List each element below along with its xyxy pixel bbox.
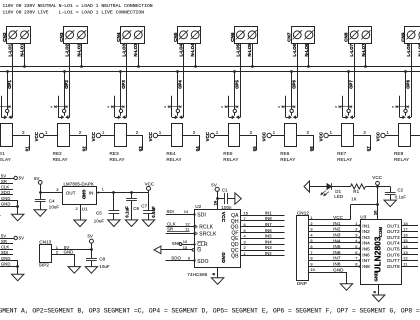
svg-text:N-LO3: N-LO3 <box>133 43 138 57</box>
U1 GND pin 2 <box>76 204 89 220</box>
relay coil RE7 <box>342 124 354 147</box>
svg-text:OUT8: OUT8 <box>387 264 400 269</box>
svg-text:03: 03 <box>138 146 143 151</box>
svg-text:C4: C4 <box>49 199 55 204</box>
svg-text:74HC595: 74HC595 <box>187 272 207 277</box>
svg-text:VCC: VCC <box>145 181 155 186</box>
svg-text:CN13: CN13 <box>39 240 51 245</box>
U3 IN1/OUT1 row <box>362 221 418 229</box>
svg-text:9: 9 <box>188 256 190 261</box>
svg-text:1: 1 <box>244 251 246 256</box>
terminal block CN9 <box>401 27 420 44</box>
IC U3 ULN2803 <box>360 215 401 285</box>
U2 output QG pin 6 net IN7 <box>231 222 285 231</box>
svg-text:ULN2803: ULN2803 <box>373 236 383 272</box>
wire N-LO5 to neutral bus <box>252 43 254 67</box>
U3 IN8/OUT8 row <box>362 261 418 269</box>
svg-text:GND: GND <box>373 272 378 282</box>
capacitor C8 <box>86 250 110 269</box>
svg-text:SDI: SDI <box>197 212 206 218</box>
svg-text:2: 2 <box>355 227 357 232</box>
connector CN12 <box>297 211 310 286</box>
svg-text:RE4: RE4 <box>166 151 176 156</box>
svg-text:01: 01 <box>24 146 29 151</box>
svg-text:3: 3 <box>310 227 312 232</box>
net CLK to pin 12 <box>166 221 196 227</box>
svg-text:7: 7 <box>244 216 246 221</box>
relay contact RE5 <box>221 96 240 119</box>
junction <box>376 185 379 188</box>
junction live bus <box>404 70 407 73</box>
svg-text:N-LO4: N-LO4 <box>190 43 195 57</box>
VCC pin <box>145 181 155 192</box>
svg-text:CN6: CN6 <box>230 32 235 42</box>
wire N-LO6 to neutral bus <box>308 43 310 67</box>
svg-text:OUT4: OUT4 <box>387 241 400 246</box>
svg-text:IN3: IN3 <box>265 245 272 250</box>
svg-text:L-LO2: L-LO2 <box>65 43 70 56</box>
5V pin for U2 <box>211 182 219 209</box>
svg-text:IN7: IN7 <box>265 222 272 227</box>
svg-text:VCC: VCC <box>91 132 96 141</box>
svg-text:IN7: IN7 <box>362 258 370 263</box>
svg-text:5: 5 <box>392 105 394 109</box>
svg-text:R1: R1 <box>353 189 359 194</box>
svg-text:SDO: SDO <box>1 190 10 195</box>
wire N-LO4 to neutral bus <box>195 43 197 67</box>
svg-text:OUT5: OUT5 <box>387 247 400 252</box>
svg-text:5: 5 <box>278 105 280 109</box>
svg-text:10: 10 <box>310 267 315 272</box>
svg-text:10uF: 10uF <box>49 205 60 210</box>
wire U1 IN to VCC rail <box>97 192 149 194</box>
net stubs GND <box>0 196 19 214</box>
svg-text:LM7805-DAPK: LM7805-DAPK <box>64 182 94 187</box>
svg-text:110V OR 230V LIVE: 110V OR 230V LIVE <box>3 10 49 16</box>
wire N-LO3 to neutral bus <box>138 43 140 67</box>
U2 output QA pin 15 net IN1 <box>231 210 284 219</box>
svg-text:13: 13 <box>403 250 408 255</box>
relay coil RE3 <box>115 124 127 147</box>
svg-text:VCC: VCC <box>319 132 324 141</box>
capacitor C6 0.1uF <box>125 193 140 220</box>
svg-text:RE1: RE1 <box>0 151 5 156</box>
svg-text:2: 2 <box>307 130 310 135</box>
wire VCC to U3 COM <box>351 187 379 220</box>
wire live bus to contact pole <box>64 72 66 109</box>
relay contact RE7 <box>335 96 354 119</box>
svg-text:7: 7 <box>355 256 357 261</box>
wire L-LO5 to relay contact <box>240 43 242 117</box>
svg-text:8: 8 <box>355 261 357 266</box>
svg-text:GND: GND <box>333 267 344 272</box>
relay contact RE2 <box>51 96 70 119</box>
net stub SDI <box>0 250 13 255</box>
wire live bus to contact pole <box>177 72 179 109</box>
CN12 pin 5 net IN4 <box>308 238 360 243</box>
svg-text:T: T <box>0 214 1 219</box>
svg-text:12: 12 <box>403 256 408 261</box>
U3 IN5/OUT5 row <box>362 244 418 252</box>
relay coil RE8 <box>399 124 411 147</box>
svg-text:RELAY: RELAY <box>223 157 238 162</box>
svg-text:VCC: VCC <box>34 132 39 141</box>
svg-text:IN2: IN2 <box>362 229 370 234</box>
svg-text:OP7: OP7 <box>348 80 353 89</box>
terminal block CN3 <box>59 27 87 44</box>
ground <box>68 267 80 274</box>
svg-text:RELAY: RELAY <box>0 157 11 162</box>
svg-text:IN6: IN6 <box>333 250 341 255</box>
svg-text:1: 1 <box>45 130 48 135</box>
svg-text:14: 14 <box>184 209 189 214</box>
wire N-LO2 to neutral bus <box>81 43 83 67</box>
svg-text:IN4: IN4 <box>362 241 370 246</box>
svg-text:IN6: IN6 <box>362 252 370 257</box>
wire live bus to contact pole <box>7 72 9 109</box>
CN12 pin 2 net IN1 <box>308 221 360 227</box>
CN12 pin 9 net IN8 <box>308 261 360 267</box>
svg-text:N-LO2: N-LO2 <box>76 43 81 57</box>
wire live bus to contact pole <box>234 72 236 109</box>
svg-text:RELAY: RELAY <box>110 157 125 162</box>
relay coil RE2 <box>58 124 70 147</box>
svg-text:L-LO1: L-LO1 <box>8 43 13 56</box>
junction <box>130 191 133 194</box>
svg-text:10uF: 10uF <box>99 264 110 269</box>
relay coil RE5 <box>229 124 240 147</box>
terminal block CN5 <box>173 27 201 44</box>
svg-text:2: 2 <box>193 130 196 135</box>
svg-text:04: 04 <box>195 146 200 151</box>
svg-text:5: 5 <box>355 244 357 249</box>
svg-text:VCC: VCC <box>376 132 381 141</box>
svg-text:OUT2: OUT2 <box>387 229 400 234</box>
net stub SR <box>0 239 13 244</box>
CN12 pin 1 net VCC <box>308 215 350 220</box>
junction neutral bus <box>80 65 83 68</box>
svg-text:C7: C7 <box>141 203 147 208</box>
svg-text:OP4: OP4 <box>178 80 183 89</box>
svg-text:CN5: CN5 <box>173 32 178 42</box>
svg-text:2: 2 <box>250 130 253 135</box>
ground <box>373 295 385 302</box>
net SR to pin 11 <box>166 227 196 235</box>
wire L-LO3 to relay contact <box>126 43 128 117</box>
svg-text:IN8: IN8 <box>362 264 370 269</box>
svg-text:1: 1 <box>159 130 162 135</box>
svg-text:GND: GND <box>81 190 86 200</box>
VCC pin <box>0 132 1 141</box>
svg-text:CN7: CN7 <box>287 32 292 42</box>
svg-text:OP5: OP5 <box>235 80 240 89</box>
wire L-LO6 to relay contact <box>297 43 299 117</box>
ground <box>85 267 97 274</box>
svg-text:SDI: SDI <box>167 209 174 214</box>
IC U2 74HC595 <box>195 204 241 268</box>
svg-text:IN1: IN1 <box>362 223 370 228</box>
ground <box>125 220 137 227</box>
junction live bus <box>290 70 293 73</box>
svg-text:U2: U2 <box>195 204 201 209</box>
bus stub group 2: 5V <box>0 233 24 240</box>
svg-text:6: 6 <box>310 244 312 249</box>
net stub SDO <box>0 190 13 195</box>
wire live bus to contact pole <box>348 72 350 109</box>
wire coil to net O2 <box>70 136 87 151</box>
terminal block CN8 <box>344 27 372 44</box>
net stubs GND <box>0 256 19 274</box>
wire L-LO4 to relay contact <box>183 43 185 117</box>
wire N-LO7 to neutral bus <box>365 43 367 67</box>
svg-text:C1: C1 <box>222 188 228 193</box>
svg-text:2: 2 <box>79 130 82 135</box>
svg-text:RE3: RE3 <box>110 151 120 156</box>
svg-text:C5: C5 <box>96 211 102 216</box>
net SDO from pin 9 <box>166 256 196 262</box>
U3 IN6/OUT6 row <box>362 250 418 257</box>
svg-text:IN7: IN7 <box>333 256 341 261</box>
svg-text:RE2: RE2 <box>53 151 63 156</box>
svg-text:IN4: IN4 <box>333 238 341 243</box>
terminal block CN6 <box>230 27 258 44</box>
svg-text:VCC: VCC <box>333 215 344 220</box>
wire L-LO1 to relay contact <box>12 43 14 117</box>
wire live bus to contact pole <box>405 72 407 109</box>
wire live bus to contact pole <box>291 72 293 109</box>
svg-text:G: G <box>197 248 201 254</box>
net stub CLK <box>0 245 13 250</box>
svg-text:5V: 5V <box>211 182 217 187</box>
resistor R1 1K <box>351 184 366 201</box>
net stub CLK <box>0 185 13 190</box>
U2 output QC pin 2 net IN3 <box>231 245 285 254</box>
VCC pin <box>91 132 114 141</box>
svg-text:L-LO4: L-LO4 <box>178 43 183 56</box>
U2 output QD pin 3 net IN4 <box>231 239 285 248</box>
svg-text:RE7: RE7 <box>337 151 347 156</box>
svg-text:15: 15 <box>244 210 249 215</box>
U3 GND pin 9 <box>372 284 379 295</box>
svg-text:QB: QB <box>231 254 239 260</box>
svg-text:06: 06 <box>309 146 314 151</box>
svg-text:RELAY: RELAY <box>337 157 352 162</box>
svg-text:7: 7 <box>310 250 312 255</box>
svg-text:5: 5 <box>335 105 337 109</box>
junction neutral bus <box>364 65 367 68</box>
wire L-LO8 to relay contact <box>411 43 413 117</box>
svg-text:8: 8 <box>310 256 312 261</box>
wire live bus to contact pole <box>120 72 122 109</box>
wire coil to net O4 <box>183 136 200 151</box>
VCC pin <box>376 132 399 141</box>
svg-text:OUT1: OUT1 <box>387 223 400 228</box>
svg-text:0.1uF: 0.1uF <box>151 206 156 218</box>
U2 output QB pin 1 net IN2 <box>231 251 284 260</box>
junction live bus <box>6 70 9 73</box>
svg-text:C8: C8 <box>99 257 105 262</box>
svg-text:CN12: CN12 <box>297 211 309 216</box>
ground <box>108 220 120 227</box>
svg-text:2: 2 <box>136 130 139 135</box>
svg-text:L-LO1 = LOAD 1 LIVE CONNECTION: L-LO1 = LOAD 1 LIVE CONNECTION <box>59 10 145 16</box>
svg-text:18: 18 <box>403 221 408 226</box>
junction <box>112 191 115 194</box>
CN13 pin 2 wire GND <box>52 249 75 266</box>
svg-text:C2: C2 <box>397 188 403 193</box>
ground <box>74 220 86 227</box>
svg-text:RE5: RE5 <box>223 151 233 156</box>
svg-text:5: 5 <box>164 105 166 109</box>
junction live bus <box>63 70 66 73</box>
svg-text:1: 1 <box>102 130 105 135</box>
capacitor C5 <box>94 193 120 224</box>
svg-text:GND: GND <box>1 201 10 206</box>
svg-text:11: 11 <box>403 261 407 266</box>
5V supply pin <box>34 176 42 193</box>
svg-text:GND: GND <box>221 252 226 263</box>
svg-text:IN1: IN1 <box>333 221 341 226</box>
U2 pin names <box>195 212 226 265</box>
svg-text:GND: GND <box>64 250 74 255</box>
U3 IN7/OUT7 row <box>362 256 418 264</box>
svg-text:17: 17 <box>403 227 408 232</box>
U3 IN3/OUT3 row <box>362 232 418 240</box>
svg-text:2: 2 <box>22 130 25 135</box>
svg-text:IN2: IN2 <box>333 227 341 232</box>
ground <box>34 210 46 217</box>
CN12 pin 8 net IN7 <box>308 256 360 262</box>
wire R1 to VCC node <box>366 186 391 188</box>
relay contact RE4 <box>164 96 183 119</box>
junction live bus <box>176 70 179 73</box>
svg-text:SR: SR <box>1 179 7 184</box>
relay contact RE3 <box>108 96 127 119</box>
ground <box>384 200 396 207</box>
svg-text:OUT7: OUT7 <box>387 258 400 263</box>
wire LED to R1 <box>332 186 351 188</box>
svg-text:RE8: RE8 <box>394 151 404 156</box>
svg-text:VCC: VCC <box>221 212 226 223</box>
U2 output QE pin 4 net IN5 <box>231 234 284 243</box>
U3 IN2/OUT2 row <box>362 227 418 235</box>
svg-text:2: 2 <box>310 221 312 226</box>
svg-text:RELAY: RELAY <box>394 157 409 162</box>
relay coil RE1 <box>1 124 13 147</box>
svg-text:6: 6 <box>355 250 357 255</box>
wire N-LO1 to neutral bus <box>24 43 26 67</box>
svg-text:CN2: CN2 <box>2 32 7 42</box>
svg-text:L-LO5: L-LO5 <box>235 43 240 56</box>
svg-text:OP1: OP1 <box>7 80 12 89</box>
svg-text:2: 2 <box>363 130 366 135</box>
svg-text:IN8: IN8 <box>333 262 341 267</box>
port arrow left <box>304 181 310 192</box>
terminal block CN4 <box>116 27 145 44</box>
svg-text:N-LO5: N-LO5 <box>247 43 252 57</box>
U3 IN4/OUT4 row <box>362 238 418 246</box>
svg-text:1: 1 <box>310 215 312 220</box>
svg-text:11: 11 <box>185 227 189 232</box>
connector CN13 <box>39 240 52 268</box>
svg-text:10: 10 <box>183 239 188 244</box>
svg-text:IN3: IN3 <box>333 233 341 238</box>
CN13 pin 1 wire 5V <box>52 245 92 250</box>
svg-text:1: 1 <box>330 130 333 135</box>
svg-text:DNP: DNP <box>297 281 307 286</box>
svg-text:5: 5 <box>221 105 223 109</box>
svg-text:07: 07 <box>366 146 371 151</box>
svg-text:0.1uF: 0.1uF <box>395 195 407 200</box>
svg-text:GND: GND <box>1 196 10 201</box>
U2 GND pin 8 <box>211 267 218 277</box>
relay coil RE6 <box>285 124 297 147</box>
svg-text:SR: SR <box>167 227 173 232</box>
wire coil to net O5 <box>240 136 257 151</box>
svg-text:5V: 5V <box>19 176 24 181</box>
svg-text:CN3: CN3 <box>59 32 64 42</box>
svg-text:110V OR 230V NEUTRAL: 110V OR 230V NEUTRAL <box>3 3 57 9</box>
svg-text:RELAY: RELAY <box>280 157 295 162</box>
svg-text:5: 5 <box>51 105 53 109</box>
net SDI to pin 14 <box>166 209 196 216</box>
svg-text:5: 5 <box>108 105 110 109</box>
svg-text:GMENT A, OP2=SEGMENT B, OP3 SE: GMENT A, OP2=SEGMENT B, OP3 SEGMENT =C, … <box>0 308 420 315</box>
net stub SR <box>0 179 13 184</box>
wire coil to net O1 <box>13 136 30 151</box>
svg-text:SDO: SDO <box>197 259 208 265</box>
svg-text:IN8: IN8 <box>265 216 272 221</box>
svg-text:L-LO6: L-LO6 <box>292 43 297 56</box>
svg-text:SR: SR <box>1 239 7 244</box>
relay contact RE1 <box>0 96 13 119</box>
capacitor C7 <box>141 193 156 220</box>
neutral bus wire <box>0 66 420 68</box>
VCC pin <box>205 132 228 141</box>
terminal block CN7 <box>287 27 315 44</box>
ground <box>340 284 352 291</box>
svg-text:RCLK: RCLK <box>199 225 213 231</box>
svg-text:6: 6 <box>244 222 246 227</box>
svg-text:RELAY: RELAY <box>53 157 68 162</box>
svg-text:1K: 1K <box>351 196 356 201</box>
bus stub group 1: 5V <box>0 173 24 180</box>
svg-text:05: 05 <box>252 146 257 151</box>
VCC pin <box>372 175 382 187</box>
wire L-LO7 to relay contact <box>354 43 356 117</box>
svg-text:CN8: CN8 <box>344 32 349 42</box>
svg-text:IN5: IN5 <box>333 244 341 249</box>
svg-text:5V: 5V <box>1 173 6 178</box>
regulator U1 LM7805 <box>63 182 97 205</box>
svg-text:COM: COM <box>378 227 383 238</box>
U2 output QF pin 5 net IN6 <box>231 228 284 237</box>
svg-text:GND: GND <box>1 261 10 266</box>
svg-text:5V: 5V <box>1 233 6 238</box>
port arrow to pin 13 <box>154 245 195 254</box>
junction live bus <box>233 70 236 73</box>
svg-text:1: 1 <box>273 130 276 135</box>
svg-text:U3: U3 <box>360 215 366 220</box>
wire 5V node to U1 OUT <box>39 191 63 194</box>
ground <box>211 278 223 285</box>
VCC pin <box>148 132 171 141</box>
svg-text:5: 5 <box>244 228 246 233</box>
svg-text:16: 16 <box>212 200 217 205</box>
svg-text:OUT: OUT <box>66 190 76 195</box>
wire L-LO2 to relay contact <box>69 43 71 117</box>
VCC pin <box>319 132 342 141</box>
